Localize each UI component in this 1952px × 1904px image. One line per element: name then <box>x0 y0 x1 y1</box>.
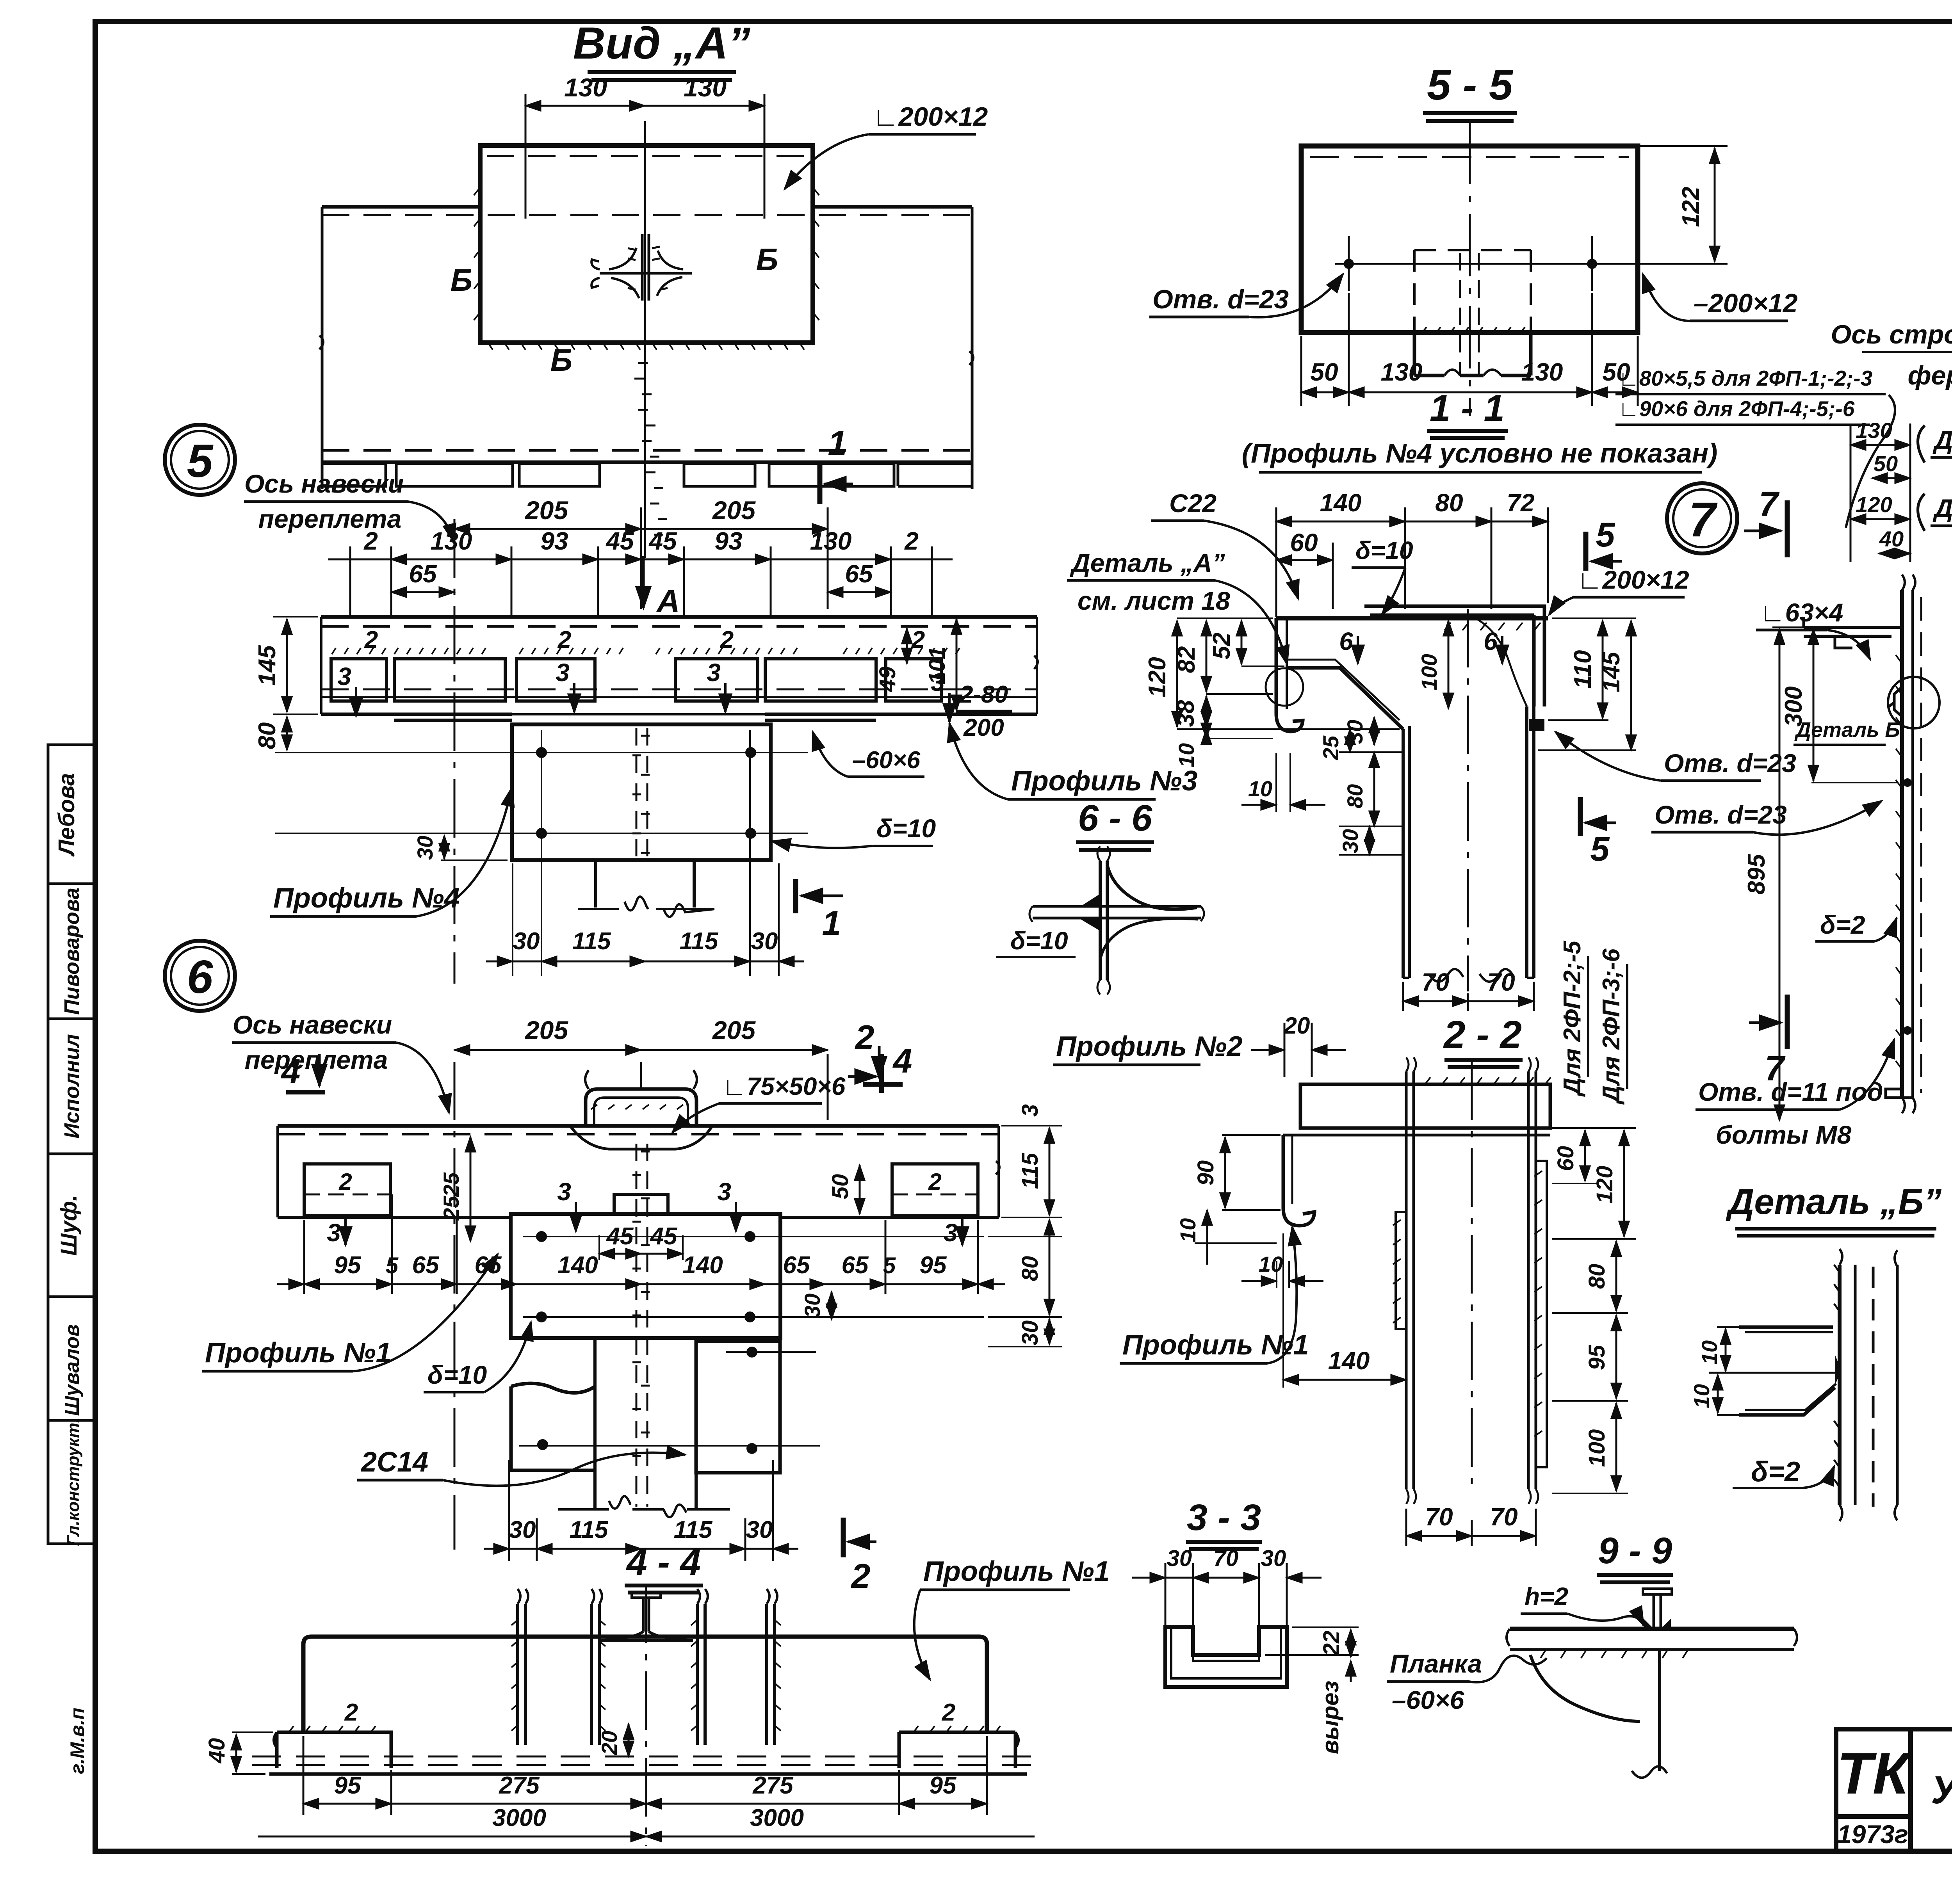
svg-text:1: 1 <box>828 424 847 462</box>
svg-text:Деталь Б: Деталь Б <box>1794 718 1900 742</box>
detail B hatch ticks on sheet <box>1834 1265 1840 1487</box>
svg-text:Профиль №4: Профиль №4 <box>273 883 460 914</box>
svg-text:Вид „А”: Вид „А” <box>573 18 751 68</box>
svg-text:С22: С22 <box>1169 489 1216 518</box>
6-6 cross profile <box>1029 846 1204 995</box>
detail B weld blob <box>1835 1354 1841 1386</box>
top chord <box>1276 616 1548 621</box>
svg-text:300: 300 <box>1780 686 1807 726</box>
dim 300 node7 <box>1813 629 1815 781</box>
bottom dim row (node6) <box>277 1194 1005 1294</box>
node5 band <box>275 617 1038 917</box>
svg-text:200: 200 <box>963 714 1004 741</box>
node 7 assembly wall <box>1804 575 1940 1113</box>
svg-text:5: 5 <box>1590 829 1610 868</box>
svg-text:2-80: 2-80 <box>959 681 1008 708</box>
node circle 6 <box>165 941 235 1011</box>
dims 95/275/275/95 (4-4) <box>303 1736 987 1815</box>
svg-text:80: 80 <box>1584 1264 1610 1289</box>
dim 70/70 (2-2) <box>1406 1509 1536 1546</box>
svg-text:10: 10 <box>1175 1218 1200 1242</box>
svg-text:1973г: 1973г <box>1837 1820 1908 1849</box>
svg-text:6: 6 <box>187 951 214 1003</box>
svg-text:10: 10 <box>1174 743 1199 767</box>
svg-text:30: 30 <box>1017 1320 1043 1346</box>
svg-text:Шувалов: Шувалов <box>61 1324 84 1416</box>
svg-text:Отв. d=23: Отв. d=23 <box>1655 800 1787 829</box>
bottom sheet <box>252 1756 1040 1758</box>
svg-text:65: 65 <box>845 560 873 588</box>
hatch on wall left side <box>1896 655 1902 1069</box>
center vertical line <box>644 121 646 558</box>
svg-text:3: 3 <box>327 1219 341 1247</box>
channel hatch <box>511 1620 606 1731</box>
1-1 dim 60 <box>1332 543 1334 609</box>
dim 80 (node5) <box>286 717 288 750</box>
svg-text:140: 140 <box>1320 489 1362 517</box>
svg-text:Планка: Планка <box>1390 1649 1482 1678</box>
section marker 7 bottom <box>1749 1021 1781 1024</box>
svg-text:65: 65 <box>842 1252 869 1279</box>
clip on top <box>586 1089 696 1126</box>
bolt lines <box>523 1237 984 1317</box>
node circle 5 <box>165 425 235 495</box>
node6 band <box>278 1070 999 1517</box>
axis dash-dot node5 <box>454 519 456 984</box>
clamps row <box>331 659 386 701</box>
dim 30/115/115/30 (node5) <box>486 730 804 976</box>
svg-text:10: 10 <box>1259 1252 1283 1276</box>
svg-text:115: 115 <box>680 928 719 955</box>
dim 65 65 (node5) <box>391 591 454 593</box>
gusset plate <box>512 724 771 860</box>
svg-text:122: 122 <box>1678 187 1704 227</box>
svg-text:95: 95 <box>334 1772 362 1799</box>
detail B title <box>1726 1182 1941 1236</box>
center axis <box>645 1585 647 1846</box>
svg-text:10: 10 <box>1248 776 1272 801</box>
svg-text:Для ∟90×6: Для ∟90×6 <box>1932 425 1952 454</box>
svg-text:3: 3 <box>717 1178 731 1206</box>
weld blobs <box>1644 1619 1671 1629</box>
svg-text:∟200×12: ∟200×12 <box>873 102 988 132</box>
1-1 left dim stack <box>1177 618 1400 738</box>
svg-text:30: 30 <box>509 1516 536 1543</box>
svg-text:82: 82 <box>1173 646 1200 673</box>
svg-text:80: 80 <box>254 722 281 749</box>
svg-text:5: 5 <box>187 435 214 487</box>
svg-text:72: 72 <box>1507 489 1534 517</box>
svg-text:140: 140 <box>682 1252 723 1279</box>
svg-text:110: 110 <box>1569 650 1596 689</box>
svg-text:145: 145 <box>254 645 281 686</box>
svg-text:переплета: переплета <box>258 504 402 533</box>
detail B break squiggles <box>1840 1249 1897 1521</box>
svg-text:30: 30 <box>1167 1546 1192 1571</box>
svg-text:101: 101 <box>924 647 950 685</box>
svg-text:–60×6: –60×6 <box>1392 1685 1465 1714</box>
9-9 horizontal member <box>1507 1589 1797 1778</box>
1-1 profile body <box>1266 606 1548 1011</box>
svg-text:205: 205 <box>712 496 756 525</box>
svg-text:2: 2 <box>363 527 378 555</box>
cap hatch <box>289 1726 1000 1732</box>
svg-text:Б: Б <box>756 242 778 277</box>
bottom dim 70/70 <box>1403 982 1534 1011</box>
svg-text:6 - 6: 6 - 6 <box>1078 797 1152 839</box>
pockets <box>304 1164 390 1215</box>
svg-text:h=2: h=2 <box>1525 1582 1568 1610</box>
lower flanges and plate <box>511 1383 595 1470</box>
dim 205/205 (node6) <box>454 1050 828 1120</box>
5-5 plate outline <box>1301 146 1638 333</box>
svg-text:30: 30 <box>800 1294 825 1318</box>
svg-text:Шуф.: Шуф. <box>56 1195 82 1256</box>
svg-text:1 - 1: 1 - 1 <box>1430 387 1505 429</box>
svg-text:Ось навески: Ось навески <box>233 1010 392 1039</box>
3-3 channel body <box>1165 1627 1287 1687</box>
svg-text:3: 3 <box>944 1219 958 1247</box>
svg-text:Лебова: Лебова <box>54 773 79 857</box>
svg-text:80: 80 <box>1435 489 1463 517</box>
profile 1 hook left <box>1283 1135 1314 1226</box>
svg-text:(Профиль №4 условно не пок: (Профиль №4 условно не показан) <box>1242 438 1718 468</box>
svg-text:6: 6 <box>1484 627 1498 655</box>
dim 130/130 <box>525 94 764 219</box>
svg-text:2: 2 <box>911 626 925 653</box>
svg-text:см. лист 18: см. лист 18 <box>1078 586 1230 615</box>
fillet right корень <box>1476 618 1527 706</box>
svg-text:Деталь „Б”: Деталь „Б” <box>1726 1182 1941 1222</box>
node circle 7 <box>1667 483 1737 553</box>
svg-text:93: 93 <box>540 527 568 555</box>
4-4 body <box>252 1585 1040 1846</box>
svg-text:25: 25 <box>439 1172 463 1197</box>
shelf and diagonal <box>1287 668 1403 729</box>
side plate left <box>1396 1212 1406 1329</box>
svg-text:2: 2 <box>338 1169 352 1195</box>
bracket below <box>1530 1655 1640 1721</box>
svg-text:болты М8: болты М8 <box>1716 1120 1852 1149</box>
svg-text:10: 10 <box>1689 1384 1714 1408</box>
bottom squiggles <box>1403 977 1534 979</box>
svg-text:80: 80 <box>1343 784 1367 808</box>
svg-text:25: 25 <box>1318 735 1343 760</box>
svg-text:45: 45 <box>606 1223 634 1250</box>
central dashed slot <box>636 728 647 857</box>
svg-text:вырез: вырез <box>1317 1681 1343 1754</box>
svg-text:2: 2 <box>851 1557 871 1595</box>
svg-text:10: 10 <box>1697 1340 1722 1365</box>
svg-text:25: 25 <box>439 1196 463 1221</box>
svg-text:140: 140 <box>1328 1347 1370 1375</box>
svg-text:Деталь „А”: Деталь „А” <box>1070 548 1225 577</box>
svg-text:Для ∟80×5,5: Для ∟80×5,5 <box>1932 494 1952 523</box>
dim row 2/130/93/45/45/93/130/2 (node5) <box>328 546 953 615</box>
svg-text:3: 3 <box>556 658 570 687</box>
svg-text:65: 65 <box>409 560 437 588</box>
bolt black square <box>1529 719 1544 731</box>
svg-text:Ось навески: Ось навески <box>244 469 404 498</box>
title block <box>1836 1729 1952 1851</box>
dim 895 node7 <box>1779 629 1781 1120</box>
section marker 2 bottom <box>841 1518 846 1557</box>
svg-text:Узлы 5÷7 фонарных панелей: Узлы 5÷7 фонарных панелей <box>1931 1768 1952 1812</box>
svg-text:3 - 3: 3 - 3 <box>1187 1497 1261 1538</box>
svg-text:∟75×50×6: ∟75×50×6 <box>722 1072 846 1100</box>
svg-text:Пивоварова: Пивоварова <box>60 888 84 1015</box>
svg-text:Б: Б <box>451 263 473 297</box>
svg-text:120: 120 <box>1592 1166 1617 1204</box>
svg-text:22: 22 <box>1319 1631 1344 1657</box>
svg-text:Отв. d=23: Отв. d=23 <box>1664 749 1796 778</box>
svg-text:50: 50 <box>828 1174 853 1199</box>
svg-text:3000: 3000 <box>492 1804 546 1831</box>
svg-text:Профиль №1: Профиль №1 <box>923 1556 1110 1587</box>
svg-text:∟90×6 для 2ФП-4;-5;-6: ∟90×6 для 2ФП-4;-5;-6 <box>1618 397 1855 421</box>
svg-text:275: 275 <box>499 1772 540 1799</box>
svg-text:А: А <box>656 584 680 619</box>
5-5 hidden profile dashed box <box>1414 250 1531 333</box>
svg-text:95: 95 <box>1584 1345 1610 1370</box>
svg-text:205: 205 <box>712 1016 756 1045</box>
svg-text:δ=2: δ=2 <box>1751 1456 1800 1488</box>
5-5 bottom tab <box>1414 333 1531 375</box>
svg-text:Профиль №2: Профиль №2 <box>1056 1031 1243 1062</box>
svg-text:100: 100 <box>1584 1429 1610 1467</box>
svg-text:Для 2ФП-2;-5: Для 2ФП-2;-5 <box>1559 940 1586 1097</box>
svg-text:фермы: фермы <box>1908 361 1952 390</box>
svg-text:3: 3 <box>337 662 351 690</box>
bolt dots node6 <box>536 1231 547 1242</box>
right dim chain (2-2) <box>1552 1128 1636 1493</box>
5-5 inner dashed top <box>1310 156 1629 158</box>
svg-text:∟200×12: ∟200×12 <box>1577 565 1689 594</box>
section marker 5 bottom <box>1578 797 1583 836</box>
svg-text:130: 130 <box>564 73 607 102</box>
svg-text:Профиль №1: Профиль №1 <box>205 1337 392 1368</box>
right chain dims (node6) <box>988 1126 1062 1347</box>
svg-text:130: 130 <box>1856 418 1892 443</box>
svg-text:9 - 9: 9 - 9 <box>1598 1530 1672 1571</box>
5-5 center axis <box>1469 122 1471 416</box>
svg-text:20: 20 <box>597 1731 622 1755</box>
svg-text:Гл.конструкт.: Гл.конструкт. <box>64 1418 83 1546</box>
axis <box>1471 1062 1473 1495</box>
svg-text:115: 115 <box>1017 1153 1043 1189</box>
svg-text:2С14: 2С14 <box>360 1447 428 1478</box>
svg-text:г.М.в.п: г.М.в.п <box>66 1708 88 1774</box>
svg-text:65: 65 <box>783 1252 810 1279</box>
dashed line through clamps <box>321 689 1037 690</box>
dim 145 (node5) <box>273 617 318 714</box>
svg-text:Профиль №1: Профиль №1 <box>1122 1329 1309 1361</box>
svg-text:30: 30 <box>1343 720 1367 744</box>
svg-text:3: 3 <box>557 1178 571 1206</box>
svg-text:52: 52 <box>1208 633 1235 660</box>
detail B bracket plate <box>1739 1327 1835 1415</box>
svg-text:2: 2 <box>557 626 571 653</box>
svg-text:Отв. d=23: Отв. d=23 <box>1152 285 1289 314</box>
svg-text:20: 20 <box>1284 1013 1310 1039</box>
wide plate <box>511 1214 780 1338</box>
5-5 bottom dims <box>1301 293 1638 406</box>
svg-text:95: 95 <box>930 1772 957 1799</box>
svg-text:100: 100 <box>1417 654 1441 690</box>
svg-text:4: 4 <box>892 1041 912 1080</box>
svg-text:145: 145 <box>1598 651 1625 692</box>
detail B vertical sheet lines <box>1838 1265 1842 1505</box>
svg-text:5: 5 <box>883 1253 896 1278</box>
view arrow А <box>642 556 645 608</box>
svg-text:6: 6 <box>1339 627 1353 655</box>
svg-text:120: 120 <box>1856 492 1892 517</box>
svg-text:115: 115 <box>674 1516 713 1543</box>
svg-text:3: 3 <box>707 658 721 687</box>
T rail center <box>643 1598 649 1632</box>
svg-text:3000: 3000 <box>750 1804 804 1831</box>
panel band left of plate <box>322 205 480 209</box>
svg-text:∟80×5,5 для 2ФП-1;-2;-3: ∟80×5,5 для 2ФП-1;-2;-3 <box>1618 366 1872 390</box>
svg-text:1: 1 <box>822 904 841 942</box>
svg-text:Ось стропильной: Ось стропильной <box>1831 320 1952 349</box>
1-1 dim 140/80/72 <box>1276 507 1548 617</box>
svg-text:7: 7 <box>1765 1049 1786 1088</box>
svg-text:7: 7 <box>1688 493 1718 547</box>
svg-text:275: 275 <box>752 1772 794 1799</box>
svg-text:205: 205 <box>524 1016 568 1045</box>
bolt marks on wall <box>1903 778 1912 787</box>
svg-text:30: 30 <box>1338 829 1362 853</box>
svg-text:2: 2 <box>942 1699 955 1726</box>
svg-text:70: 70 <box>1213 1546 1239 1571</box>
left wall + hook <box>1276 618 1303 731</box>
central walls <box>1403 726 1409 978</box>
below plate profile lines <box>596 860 694 908</box>
svg-text:40: 40 <box>204 1738 230 1764</box>
hook at detail B position <box>1889 687 1902 717</box>
svg-text:45: 45 <box>650 1223 678 1250</box>
svg-text:Исполнил: Исполнил <box>60 1034 84 1139</box>
svg-text:49: 49 <box>875 667 900 692</box>
axis <box>1467 609 1469 991</box>
svg-text:45: 45 <box>605 527 634 555</box>
weld cross symbol at plate centre <box>642 234 649 301</box>
svg-text:205: 205 <box>524 496 568 525</box>
svg-text:2: 2 <box>928 1169 941 1195</box>
svg-text:50: 50 <box>1310 358 1338 386</box>
svg-text:70: 70 <box>1490 1503 1517 1531</box>
svg-text:30: 30 <box>746 1516 773 1543</box>
central column <box>1406 1071 1414 1489</box>
svg-text:115: 115 <box>572 928 611 955</box>
svg-text:2 - 2: 2 - 2 <box>1443 1013 1522 1057</box>
svg-text:70: 70 <box>1421 968 1449 996</box>
top plate <box>1300 1084 1550 1128</box>
svg-text:30: 30 <box>513 928 540 955</box>
dim 45/45 (node6) <box>599 1253 641 1255</box>
svg-text:переплета: переплета <box>245 1045 388 1074</box>
svg-text:5: 5 <box>386 1253 399 1278</box>
svg-text:–200×12: –200×12 <box>1694 288 1798 318</box>
svg-text:45: 45 <box>648 527 677 555</box>
section marker 1 top <box>817 463 823 504</box>
svg-text:140: 140 <box>557 1252 598 1279</box>
side plate right long <box>1536 1161 1547 1467</box>
2-2 drawing <box>1283 1057 1551 1504</box>
svg-text:95: 95 <box>334 1252 362 1279</box>
svg-text:130: 130 <box>431 527 472 555</box>
svg-text:7: 7 <box>1759 485 1780 524</box>
5-5 tab hatch <box>1421 327 1525 334</box>
svg-text:30: 30 <box>1261 1546 1286 1571</box>
svg-text:130: 130 <box>1381 358 1423 386</box>
plate rect <box>480 146 813 343</box>
svg-text:ТК: ТК <box>1837 1740 1912 1806</box>
svg-text:2: 2 <box>904 527 919 555</box>
T rail on top <box>1654 1594 1661 1629</box>
svg-text:δ=2: δ=2 <box>1820 910 1865 939</box>
svg-text:30: 30 <box>413 836 437 860</box>
svg-text:3: 3 <box>1017 1104 1043 1117</box>
hatch strips under top line <box>332 648 486 654</box>
svg-text:δ=10: δ=10 <box>1355 536 1413 564</box>
svg-text:70: 70 <box>1487 968 1515 996</box>
channels <box>518 1604 599 1745</box>
svg-text:4 - 4: 4 - 4 <box>626 1542 701 1583</box>
svg-text:5 - 5: 5 - 5 <box>1427 61 1514 109</box>
3-3 dims 30/70/30 <box>1132 1563 1322 1630</box>
svg-text:130: 130 <box>1521 358 1563 386</box>
svg-text:δ=10: δ=10 <box>427 1360 487 1389</box>
dim 3000/3000 (4-4) <box>258 1836 1035 1838</box>
svg-text:5: 5 <box>1596 515 1615 554</box>
band bottom <box>322 449 972 452</box>
svg-text:δ=10: δ=10 <box>876 814 936 843</box>
svg-text:38: 38 <box>1172 700 1199 727</box>
section marker 1 bottom <box>793 879 798 913</box>
svg-text:60: 60 <box>1553 1146 1578 1171</box>
stacked small dims 130/50/120/40 <box>1850 424 1910 562</box>
svg-text:120: 120 <box>1144 657 1171 697</box>
svg-text:60: 60 <box>1290 528 1318 557</box>
hatch on angle area <box>1444 623 1541 630</box>
detail B drawing <box>1709 1249 1897 1521</box>
svg-text:2: 2 <box>720 626 734 653</box>
detail A circle <box>1266 668 1303 706</box>
dim 30/115/115/30 (node6 bottom) <box>484 1460 798 1561</box>
svg-text:Б: Б <box>550 343 573 377</box>
detail B dim 10/10 <box>1709 1327 1840 1415</box>
svg-text:95: 95 <box>920 1252 947 1279</box>
svg-text:2: 2 <box>344 1699 358 1726</box>
svg-text:δ=10: δ=10 <box>1010 927 1068 955</box>
bolt dots node5 <box>536 747 547 758</box>
bottom foot <box>1886 1089 1913 1098</box>
svg-text:895: 895 <box>1743 854 1770 895</box>
svg-text:93: 93 <box>714 527 742 555</box>
svg-text:–60×6: –60×6 <box>852 747 921 774</box>
tabs under band <box>323 464 386 486</box>
bolt lines <box>275 753 808 833</box>
dim 205/205 (node5) <box>454 507 828 609</box>
5-5 dim 122 <box>1608 146 1728 264</box>
svg-text:80: 80 <box>1017 1256 1043 1281</box>
svg-text:∟63×4: ∟63×4 <box>1760 598 1843 627</box>
central dashed slot node6 <box>636 1144 647 1507</box>
svg-text:65: 65 <box>412 1252 440 1279</box>
svg-text:4: 4 <box>281 1052 301 1091</box>
